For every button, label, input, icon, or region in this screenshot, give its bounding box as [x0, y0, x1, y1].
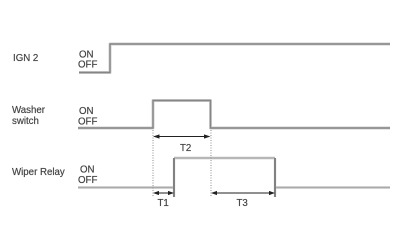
svg-text:T1: T1 [158, 198, 169, 209]
wire IGN2 waveform [79, 44, 390, 73]
node dotted line left (washer rising edge) [152, 130, 154, 196]
svg-text:ON: ON [79, 106, 94, 117]
wire Wiper Relay rising edge [173, 158, 175, 197]
svg-text:OFF: OFF [78, 117, 97, 128]
node dotted line right (washer falling edge) [210, 130, 212, 196]
wire Wiper Relay waveform horizontals [78, 158, 390, 188]
arrow T3 dimension [211, 191, 275, 195]
svg-text:ON: ON [80, 165, 95, 176]
wire Wiper Relay falling edge [274, 158, 276, 197]
svg-text:Wiper Relay: Wiper Relay [12, 167, 65, 178]
svg-text:OFF: OFF [78, 60, 97, 71]
svg-text:IGN 2: IGN 2 [13, 53, 38, 64]
arrow T1 dimension [153, 191, 174, 195]
wire Washer waveform [78, 101, 390, 129]
arrow T2 dimension [153, 134, 211, 138]
svg-text:switch: switch [12, 116, 39, 127]
svg-text:OFF: OFF [78, 175, 97, 186]
svg-text:T2: T2 [180, 143, 191, 154]
svg-text:Washer: Washer [12, 105, 46, 116]
svg-text:T3: T3 [237, 198, 248, 209]
